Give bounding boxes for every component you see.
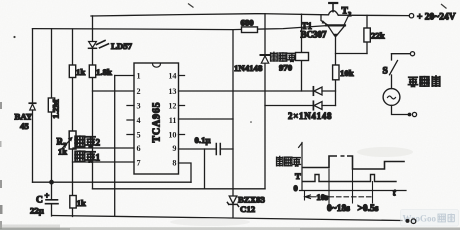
svg-text:0: 0	[294, 183, 298, 193]
svg-text:1k: 1k	[58, 147, 67, 157]
IC U1 TCA965 body	[134, 63, 179, 174]
faint scan smudges	[170, 147, 413, 226]
potentiometer RP 1k	[69, 131, 76, 149]
diode D2 (1N4148)	[313, 101, 322, 109]
svg-text:R: R	[57, 137, 64, 147]
svg-text:10: 10	[168, 131, 176, 140]
svg-text:45: 45	[20, 121, 29, 131]
svg-text:+: +	[45, 191, 50, 201]
svg-text:22μ: 22μ	[30, 206, 44, 216]
svg-text:2: 2	[96, 138, 101, 148]
label threshold2 (CJK)	[75, 136, 95, 147]
svg-text:1.8k: 1.8k	[96, 67, 112, 77]
label relay (CJK, timing)	[277, 157, 301, 167]
svg-text:+ 20~24V: + 20~24V	[417, 13, 456, 23]
LED LD57	[89, 41, 109, 49]
svg-text:10s: 10s	[317, 193, 329, 202]
relay coil box	[301, 14, 303, 91]
zener BZX83/C12	[227, 196, 238, 206]
timing diagram axes	[299, 143, 406, 191]
svg-text:BC307: BC307	[301, 30, 328, 40]
wire: +V top rail (node +20-24V)	[91, 14, 409, 16]
pin stubs right (14,12,10)	[179, 76, 185, 135]
svg-text:2: 2	[348, 11, 351, 18]
svg-text:2: 2	[137, 87, 141, 96]
wire: pin 1 lead	[115, 75, 134, 77]
resistor 10k	[333, 65, 339, 80]
wire: pin 6 lead (threshold 2)	[73, 147, 134, 149]
svg-text:BZX83: BZX83	[238, 195, 265, 205]
svg-text:7: 7	[137, 159, 141, 168]
svg-text:13: 13	[168, 87, 176, 96]
switch S with terminal	[392, 53, 411, 55]
resistor 1.2M	[48, 98, 54, 112]
resistor 1k (bottom)	[70, 196, 76, 209]
wire: second rail (Vs rail to TCA965 divider)	[33, 29, 234, 30]
svg-text:11: 11	[169, 116, 177, 125]
wire: pin 8 jog	[179, 163, 192, 182]
relay waveform trace	[303, 156, 404, 169]
wire: 680/base line	[233, 25, 330, 29]
wire: pin 8 net (long horizontal to BAY45/C)	[33, 181, 192, 183]
transistor T1 BC307	[321, 15, 345, 38]
wire: load bottom lead with terminals	[392, 105, 408, 114]
wire: 22k bottom link	[336, 53, 368, 55]
wire: pin 13 output line	[179, 90, 336, 92]
pin stubs left (3,4,5)	[127, 106, 134, 135]
svg-text:6: 6	[137, 144, 141, 153]
svg-text:1N4148: 1N4148	[234, 63, 263, 73]
svg-text:1.2M: 1.2M	[51, 99, 61, 119]
resistor 22k	[364, 28, 370, 42]
resistor 680	[242, 27, 258, 33]
svg-text:12: 12	[168, 102, 176, 111]
svg-text:4: 4	[137, 116, 141, 125]
svg-text:BAY: BAY	[15, 112, 33, 122]
wire: pin 7 lead (threshold 1)	[73, 161, 135, 163]
wire: LED/1.8k column (input divider)	[92, 16, 94, 189]
svg-text:LD57: LD57	[111, 41, 133, 51]
svg-text:3: 3	[137, 102, 141, 111]
svg-text:8: 8	[172, 159, 176, 168]
wire: pin 9 tap down	[204, 149, 206, 189]
svg-text:C12: C12	[240, 204, 256, 214]
svg-text:970: 970	[279, 63, 293, 73]
relay trace scan gaps	[337, 154, 341, 158]
svg-text:2×1N4148: 2×1N4148	[288, 111, 332, 121]
svg-text:1: 1	[137, 72, 141, 81]
svg-text:22k: 22k	[371, 31, 385, 41]
wire: pin 9 line	[179, 148, 234, 150]
svg-text:1k: 1k	[77, 198, 86, 208]
T waveform trace	[303, 175, 396, 182]
svg-text:>0.5s: >0.5s	[358, 204, 379, 214]
dimension guide lines	[305, 169, 373, 209]
wire: pin 2 lead	[93, 90, 135, 92]
svg-text:0.1μ: 0.1μ	[195, 135, 211, 145]
capacitor C 22u plates	[46, 200, 59, 204]
wire: bottom ground rail	[52, 216, 402, 221]
svg-text:10k: 10k	[340, 68, 354, 78]
wire: column 1.2M / C branch	[51, 29, 53, 216]
wire: lower net (pin2 column to diode column)	[93, 188, 266, 190]
watermark box	[401, 210, 459, 227]
svg-text:14: 14	[168, 72, 176, 81]
svg-text:5: 5	[137, 131, 141, 140]
wire: relay-left column (rail A down through freewheel diode to lower net)	[264, 14, 266, 189]
wire: left column BAY45 branch	[32, 29, 34, 183]
svg-text:0~18s: 0~18s	[327, 204, 350, 214]
resistor 1.8k	[89, 65, 95, 78]
pin numbers right	[168, 72, 176, 168]
label appliance (CJK)	[409, 76, 440, 87]
terminal +20~24V	[409, 14, 413, 18]
resistor 1k (top)	[69, 65, 75, 78]
label relay coil (CJK)	[271, 52, 296, 61]
svg-text:9: 9	[172, 144, 176, 153]
scan edge artifacts left	[0, 102, 3, 229]
wire: 22k column	[366, 15, 368, 53]
svg-text:1k: 1k	[76, 67, 85, 77]
wire: mid vertical bus (rail B down to ground)	[232, 30, 234, 218]
svg-text:T: T	[295, 171, 301, 181]
svg-text:TCA965: TCA965	[152, 102, 163, 143]
transistor T2 (emitter curl and collector stub)	[329, 3, 349, 25]
wire: ground column from pin1	[114, 76, 116, 217]
wire: divider column (1k / RP / 1k)	[72, 29, 74, 217]
terminal: ground rail end	[406, 219, 416, 224]
capacitor 0.1u	[216, 144, 220, 155]
junction node (C tap)	[49, 180, 54, 185]
dimension arrows 10s	[305, 195, 373, 199]
scan edge band bottom	[0, 227, 460, 230]
svg-text:1: 1	[96, 153, 101, 163]
svg-text:680: 680	[241, 18, 255, 28]
diode D1 (1N4148)	[313, 87, 322, 95]
wire: T1 collector / 10k column	[335, 37, 337, 106]
scan specks	[13, 36, 251, 123]
diode BAY45	[29, 103, 35, 110]
svg-text:C: C	[36, 196, 43, 206]
svg-text:S: S	[383, 67, 388, 77]
pin numbers left	[137, 72, 141, 168]
wire: pin 11 line	[179, 118, 234, 120]
label threshold1 (CJK)	[75, 151, 95, 162]
wire: diode2 line	[265, 105, 336, 107]
load (appliance) circle	[383, 89, 400, 106]
diode 1N4148 freewheel	[261, 55, 270, 63]
